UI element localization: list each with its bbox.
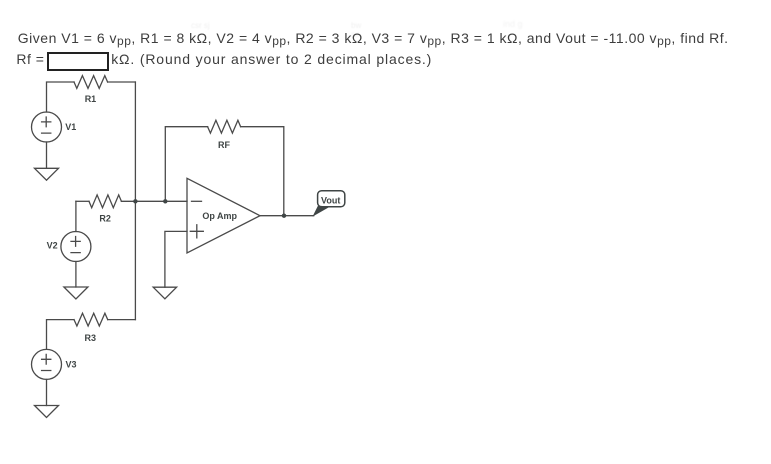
svg-text:R1: R1 (85, 94, 97, 104)
svg-text:RF: RF (218, 140, 230, 150)
svg-text:V3: V3 (66, 360, 77, 370)
svg-text:V2: V2 (47, 240, 58, 250)
svg-text:V1: V1 (65, 122, 76, 132)
svg-text:R3: R3 (85, 333, 97, 343)
svg-text:R2: R2 (99, 214, 111, 224)
svg-text:Op Amp: Op Amp (202, 211, 237, 221)
svg-text:Vout: Vout (321, 196, 340, 206)
